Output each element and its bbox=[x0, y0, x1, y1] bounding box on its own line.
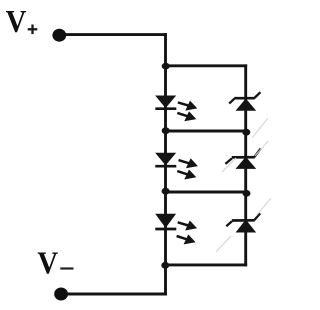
label V+ bbox=[6, 4, 38, 40]
junction dot node B right bbox=[242, 129, 250, 136]
scan artifact lines (decorative) bbox=[216, 118, 271, 252]
junction dot node C left bbox=[162, 188, 170, 195]
zener diode Z2 bbox=[225, 149, 260, 169]
LED D1 bbox=[155, 96, 197, 121]
LED D2 bbox=[155, 153, 198, 179]
svg-text:V: V bbox=[37, 245, 58, 281]
wire V+ top horizontal bbox=[63, 33, 166, 36]
junction dot node A left bbox=[162, 63, 170, 70]
junction dot node D left bbox=[161, 262, 169, 269]
wire rung node B between cell 1 and 2 bbox=[166, 130, 246, 133]
zener diode Z1 bbox=[229, 92, 260, 110]
wire rung node C between cell 2 and 3 bbox=[166, 191, 246, 194]
junction dot node C right bbox=[243, 190, 251, 197]
wire left rail vertical bbox=[164, 35, 167, 294]
LED D3 bbox=[155, 214, 197, 244]
junction dot node B left bbox=[162, 127, 170, 134]
zener diode Z3 bbox=[226, 213, 260, 232]
svg-text:V: V bbox=[6, 4, 27, 40]
wire right rail vertical bbox=[244, 66, 247, 265]
label V- bbox=[37, 245, 73, 281]
terminal V- bbox=[54, 288, 68, 301]
wire bottom horizontal to V- bbox=[64, 293, 166, 296]
terminal V+ bbox=[52, 29, 66, 42]
wire rung node D bottom of cell 3 bbox=[166, 263, 246, 266]
wire rung node A top of cell 1 bbox=[166, 64, 246, 67]
